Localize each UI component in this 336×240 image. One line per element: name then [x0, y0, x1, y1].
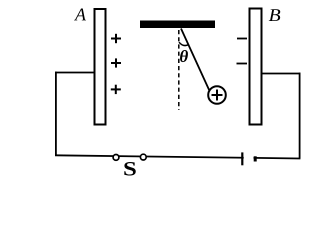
- wire from plate A to left vertical: [55, 72, 95, 74]
- wire from plate B to right vertical: [262, 73, 301, 75]
- battery gap mask: [244, 155, 254, 163]
- plus charge 2 on plate A: [111, 58, 121, 67]
- switch terminal circle left: [113, 155, 119, 161]
- support bar: [140, 21, 215, 29]
- plumb dashed line: [178, 30, 180, 110]
- switch label S: [124, 162, 135, 175]
- left vertical wire: [55, 72, 57, 156]
- plus charge 3 on plate A: [111, 85, 121, 94]
- angle arc: [179, 42, 189, 45]
- angle label theta: [180, 50, 188, 62]
- bottom wire: [55, 155, 300, 158]
- label B: [269, 9, 280, 21]
- battery short plate: [254, 156, 257, 161]
- plus charge 1 on plate A: [111, 34, 121, 43]
- charged ball: [208, 86, 226, 104]
- battery long plate: [241, 152, 243, 165]
- minus charge 1 on plate B: [237, 38, 247, 40]
- plate B: [250, 9, 262, 125]
- switch terminal circle right: [140, 154, 146, 160]
- minus charge 2 on plate B: [237, 63, 248, 65]
- right vertical wire: [299, 73, 301, 159]
- label A: [74, 9, 86, 21]
- plate A: [95, 9, 106, 125]
- pendulum string: [181, 29, 211, 94]
